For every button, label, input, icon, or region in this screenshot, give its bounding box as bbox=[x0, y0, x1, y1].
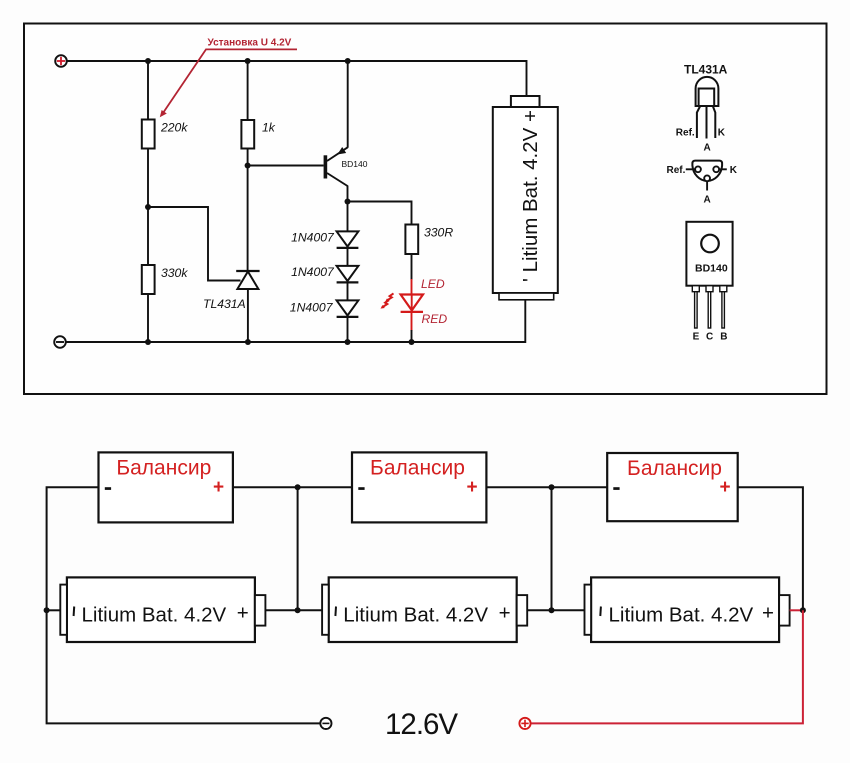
node collector junction bbox=[345, 199, 351, 205]
svg-text:RED: RED bbox=[422, 312, 448, 326]
wire 330k lower bbox=[147, 294, 149, 342]
svg-text:+: + bbox=[237, 602, 249, 625]
battery cell 1 bbox=[60, 577, 265, 642]
wire D1-D2 bbox=[347, 248, 349, 266]
wire collector down bbox=[347, 186, 349, 202]
wire battery1 plus to battery2 minus bbox=[265, 609, 322, 611]
svg-text:+: + bbox=[467, 477, 478, 498]
wire D3 lower bbox=[347, 317, 349, 342]
label Ustanovka U 4.2V with arrow bbox=[160, 38, 297, 118]
node divider junction bbox=[145, 204, 151, 210]
wire 330R to LED bbox=[411, 254, 413, 280]
wire red to plus terminal bbox=[531, 610, 803, 723]
svg-text:330k: 330k bbox=[161, 266, 188, 280]
svg-text:TL431A: TL431A bbox=[684, 63, 728, 77]
svg-text:Litium Bat. 4.2V: Litium Bat. 4.2V bbox=[343, 604, 488, 627]
svg-text:1N4007: 1N4007 bbox=[291, 231, 335, 245]
svg-text:+: + bbox=[762, 602, 774, 625]
svg-text:12.6V: 12.6V bbox=[385, 708, 458, 741]
wire base bbox=[248, 165, 324, 167]
wire battery3 plus (red) bbox=[790, 609, 803, 611]
pin leader lines (bottom view) bbox=[686, 168, 695, 170]
wire ref to TL431 bbox=[148, 207, 241, 281]
svg-text:Балансир: Балансир bbox=[627, 457, 722, 480]
pin Ref (bottom view) bbox=[695, 166, 701, 172]
diode D2 1N4007 bbox=[337, 266, 359, 283]
node bottom rail / LED bbox=[409, 339, 415, 345]
svg-text:220k: 220k bbox=[160, 121, 188, 135]
wire 1k branch upper bbox=[247, 61, 249, 120]
wire down to battery1-2 link bbox=[297, 487, 299, 610]
node bottom rail / diode chain bbox=[345, 339, 351, 345]
wire 220k to 330k bbox=[147, 149, 149, 266]
terminal minus output bbox=[320, 718, 331, 729]
wire emitter up bbox=[347, 61, 349, 148]
node battery1 minus bbox=[44, 607, 50, 613]
balancer box 2 bbox=[352, 452, 486, 522]
node top rail / emitter branch bbox=[345, 58, 351, 64]
svg-text:+: + bbox=[720, 477, 731, 498]
pin A (bottom view) bbox=[704, 175, 710, 181]
LED light arrows bbox=[381, 293, 394, 308]
svg-text:Ref.: Ref. bbox=[676, 128, 695, 139]
resistor R3 1k bbox=[241, 120, 254, 149]
wire 1k to TL431 bbox=[247, 149, 249, 272]
node mid link 2 bbox=[549, 484, 555, 490]
wire 220k branch upper bbox=[147, 61, 149, 120]
node battery2-3 link bbox=[549, 607, 555, 613]
node base junction bbox=[245, 163, 251, 169]
svg-text:LED: LED bbox=[421, 277, 445, 291]
svg-text:Litium Bat. 4.2V: Litium Bat. 4.2V bbox=[82, 604, 227, 627]
TO-92 legs bbox=[697, 106, 715, 139]
terminal plus output (red) bbox=[519, 718, 530, 729]
wire balancer2 plus to balancer3 minus bbox=[486, 486, 607, 488]
svg-text:1N4007: 1N4007 bbox=[290, 301, 334, 315]
balancer box 3 bbox=[607, 453, 738, 521]
node bottom rail / 330k bbox=[145, 339, 151, 345]
diode D1 1N4007 bbox=[337, 231, 359, 248]
resistor R4 330R bbox=[405, 225, 418, 255]
svg-text:Балансир: Балансир bbox=[116, 456, 211, 479]
svg-text:Litium Bat. 4.2V: Litium Bat. 4.2V bbox=[609, 604, 754, 627]
svg-text:B: B bbox=[720, 331, 727, 342]
svg-text:A: A bbox=[704, 194, 711, 205]
svg-text:Ref.: Ref. bbox=[667, 165, 686, 176]
svg-text:1N4007: 1N4007 bbox=[291, 265, 335, 279]
wire collector to 330R bbox=[348, 202, 412, 225]
battery cell 3 bbox=[585, 577, 790, 642]
svg-text:A: A bbox=[704, 143, 711, 154]
svg-text:E: E bbox=[693, 331, 700, 342]
LED D4 red bbox=[401, 295, 423, 312]
node bottom rail / TL431 bbox=[245, 339, 251, 345]
balancer box 1 bbox=[99, 452, 233, 522]
wire bottom rail bbox=[66, 300, 525, 342]
resistor R1 220k bbox=[142, 120, 155, 149]
wire LED lower bbox=[411, 312, 413, 331]
resistor R2 330k bbox=[142, 265, 155, 294]
wire battery2 plus to battery3 minus bbox=[527, 609, 584, 611]
svg-text:TL431A: TL431A bbox=[203, 297, 246, 311]
battery cell 2 bbox=[322, 577, 527, 642]
wire to battery1 minus tab bbox=[47, 609, 61, 611]
transistor Q1 BD140 bbox=[324, 147, 348, 186]
node mid link 1 bbox=[295, 484, 301, 490]
node battery1-2 link bbox=[295, 607, 301, 613]
svg-text:K: K bbox=[730, 165, 738, 176]
wire top rail bbox=[67, 61, 526, 96]
wire collector to diode chain bbox=[347, 202, 349, 232]
svg-text:' Litium Bat. 4.2V +: ' Litium Bat. 4.2V + bbox=[519, 110, 542, 282]
wire balancer3 plus down bbox=[738, 487, 803, 610]
pin K (bottom view) bbox=[713, 166, 719, 172]
svg-text:330R: 330R bbox=[424, 226, 453, 240]
node battery3 plus bbox=[800, 607, 806, 613]
TL431A shunt regulator U1 bbox=[236, 271, 259, 289]
wire down to battery2-3 link bbox=[551, 487, 553, 610]
svg-text:1k: 1k bbox=[262, 121, 276, 135]
wire balancer1 plus to balancer2 minus bbox=[233, 486, 352, 488]
TO-92 package front view bbox=[696, 77, 719, 106]
wire TL431 lower bbox=[247, 289, 249, 342]
BD140 package TO-126 bbox=[686, 222, 732, 286]
svg-text:C: C bbox=[706, 331, 713, 342]
terminal minus (bottom left) bbox=[54, 336, 66, 348]
svg-text:K: K bbox=[718, 128, 726, 139]
TO-92 package bottom view bbox=[692, 161, 722, 181]
svg-text:BD140: BD140 bbox=[695, 263, 728, 275]
wire balancer1 minus to battery1 minus bbox=[47, 487, 321, 723]
svg-text:BD140: BD140 bbox=[342, 159, 368, 169]
wire D2-D3 bbox=[347, 282, 349, 300]
BD140 legs bbox=[692, 286, 727, 328]
node top rail / 1k branch bbox=[245, 58, 251, 64]
battery B1 Litium Bat. 4.2V (vertical) bbox=[493, 96, 558, 300]
svg-text:Установка U 4.2V: Установка U 4.2V bbox=[208, 38, 292, 49]
node top rail / 220k branch bbox=[145, 58, 151, 64]
schematic border frame bbox=[24, 24, 827, 395]
diode D3 1N4007 bbox=[337, 300, 359, 317]
svg-text:+: + bbox=[499, 602, 511, 625]
svg-text:+: + bbox=[213, 477, 224, 498]
terminal plus (top left) bbox=[55, 55, 67, 67]
svg-text:Балансир: Балансир bbox=[370, 456, 465, 479]
